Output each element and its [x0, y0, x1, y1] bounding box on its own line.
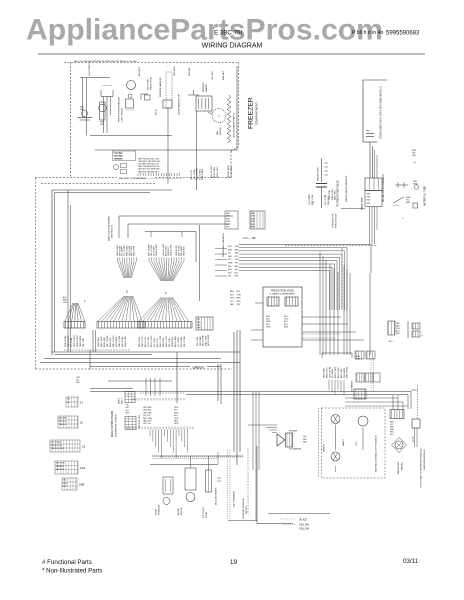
capacitor terminal ticks	[325, 162, 329, 164]
svg-text:GRN: GRN	[174, 418, 179, 420]
svg-text:YEL ORG: YEL ORG	[212, 71, 214, 80]
wire elbow long top	[239, 245, 371, 274]
lamp holder verticals	[103, 97, 105, 134]
freezer compartment dashed boundary	[64, 62, 239, 64]
wire horizontal into tank area	[341, 208, 365, 210]
valve coil block right	[285, 297, 298, 306]
dispenser compartment dashed boundary	[322, 408, 386, 478]
svg-text:THERMISTOR: THERMISTOR	[333, 213, 335, 228]
wire main bus 1b	[55, 354, 153, 356]
svg-text:WATER DISP: WATER DISP	[397, 461, 400, 474]
svg-text:4: 4	[422, 335, 424, 337]
svg-text:BRN: BRN	[367, 200, 371, 202]
svg-text:RED-8 BLU: RED-8 BLU	[163, 336, 165, 347]
svg-text:AUGER: AUGER	[177, 507, 180, 515]
svg-text:YEL: YEL	[228, 276, 232, 278]
machine compartment dashed line upper	[35, 177, 117, 179]
svg-text:ORG: ORG	[63, 302, 68, 304]
svg-text:RED: RED	[303, 442, 308, 444]
svg-text:J3: J3	[82, 444, 86, 448]
svg-text:LOCK: LOCK	[413, 436, 415, 442]
svg-text:GRY: GRY	[126, 407, 131, 409]
svg-text:VIO-4 BLU: VIO-4 BLU	[332, 368, 334, 378]
svg-text:PNK: PNK	[396, 333, 400, 335]
svg-text:J4 6 — J4B: J4 6 — J4B	[243, 237, 256, 240]
svg-text:BRN-5 ORG: BRN-5 ORG	[326, 367, 328, 378]
dispenser light lamp L1	[331, 415, 340, 424]
wire yellow feed	[268, 513, 330, 515]
svg-text:DISPENSER HARNESS: DISPENSER HARNESS	[222, 233, 225, 257]
auger motor housing	[185, 468, 196, 490]
dashed harness boundary horizontal	[285, 245, 377, 247]
svg-text:GRY: GRY	[251, 221, 256, 223]
svg-text:YEL-3 PNK: YEL-3 PNK	[194, 169, 196, 180]
ice chute door	[206, 470, 212, 492]
wire bottom link to yellow pair	[228, 520, 257, 522]
svg-text:DEFROST: DEFROST	[203, 82, 205, 92]
wire left drop to valve bundle	[217, 452, 219, 464]
wire freezer light feed horizontal	[80, 77, 110, 79]
svg-text:HEATER: HEATER	[205, 83, 208, 92]
svg-text:GRN: GRN	[100, 122, 105, 124]
defrost heater zigzag	[227, 95, 231, 143]
svg-text:DISPENSER MODULE: DISPENSER MODULE	[424, 449, 426, 470]
dispenser fan motor M4	[358, 416, 368, 426]
svg-text:YEL: YEL	[126, 405, 129, 407]
svg-text:TAN: TAN	[251, 212, 255, 215]
svg-text:BLU: BLU	[235, 256, 239, 258]
wire long bus upper	[108, 380, 172, 382]
svg-text:GRN-12 PNK: GRN-12 PNK	[65, 335, 67, 347]
cabinet dashed border left	[35, 178, 37, 369]
defrost thermostat bracket	[141, 94, 148, 100]
svg-text:VIO: VIO	[230, 301, 234, 303]
svg-text:PNK-13 ORG: PNK-13 ORG	[113, 335, 115, 347]
defrost heater DH1	[196, 96, 212, 111]
svg-text:ORG: ORG	[230, 298, 235, 300]
svg-text:4x: 4x	[414, 162, 417, 164]
svg-text:BLU-14 ORG: BLU-14 ORG	[211, 165, 213, 178]
svg-text:YEL-4 YEL: YEL-4 YEL	[197, 337, 199, 346]
pin function table A	[225, 211, 238, 229]
board edge connector strip upper	[125, 392, 135, 403]
svg-text:TAN-5 PNK: TAN-5 PNK	[328, 190, 331, 200]
wire trunk into dispenser area	[369, 273, 371, 355]
door switch diagonal	[393, 197, 404, 203]
svg-text:RED: RED	[197, 325, 201, 327]
svg-text:ORG BLU: ORG BLU	[114, 158, 123, 160]
dotted pair ice water	[370, 358, 372, 392]
wire freezer drop crossing legend	[167, 150, 169, 184]
svg-text:RED-5 TAN: RED-5 TAN	[213, 167, 216, 178]
dashed tie below connectors	[64, 349, 130, 351]
svg-text:PNK-16 GRY: PNK-16 GRY	[332, 188, 334, 200]
light switch ball S1	[82, 111, 88, 117]
svg-text:BLK-16 RED: BLK-16 RED	[197, 168, 199, 180]
svg-text:YEL VIO: YEL VIO	[143, 415, 151, 417]
svg-text:RED-6 PNK: RED-6 PNK	[133, 245, 135, 256]
svg-text:BLK-3 VIO: BLK-3 VIO	[157, 337, 159, 347]
svg-text:E 3BC 76I: E 3BC 76I	[214, 30, 242, 37]
lamp holder bracket	[101, 90, 113, 97]
svg-text:COMPARTMENT: COMPARTMENT	[255, 102, 259, 125]
svg-text:BLU: BLU	[230, 294, 234, 296]
svg-text:MULLION HEATER: MULLION HEATER	[215, 487, 218, 505]
connector table J4A	[55, 461, 78, 474]
svg-text:GRY YEL: GRY YEL	[143, 423, 151, 425]
wire freezer trunk down	[236, 66, 238, 150]
dispenser door solenoid	[163, 477, 173, 494]
bracket right tables	[407, 321, 409, 338]
defrost heater bracket	[188, 94, 199, 96]
svg-text:# Functional Parts: # Functional Parts	[42, 559, 92, 566]
svg-text:WATER TANK: WATER TANK	[361, 197, 364, 210]
svg-text:WATER FILL TUBE: WATER FILL TUBE	[424, 186, 427, 206]
svg-text:19: 19	[230, 559, 238, 566]
svg-text:WHT: WHT	[100, 124, 105, 126]
svg-text:DOOR: DOOR	[206, 511, 208, 518]
wire fan diverging B	[98, 296, 124, 321]
wire riser B	[176, 352, 178, 403]
svg-text:YEL: YEL	[226, 227, 229, 229]
svg-text:BLU: BLU	[228, 246, 232, 248]
capacitor plates freezer light	[78, 117, 93, 119]
wire stubs left of labels	[215, 248, 227, 250]
svg-text:BLU: BLU	[390, 434, 394, 436]
svg-text:BLU: BLU	[174, 415, 178, 417]
relay module below sub pcb	[354, 389, 366, 399]
wire bundle risers to sub pcb	[319, 252, 321, 355]
svg-text:PADDLE: PADDLE	[401, 461, 404, 470]
svg-text:C: C	[165, 291, 167, 295]
svg-text:T: T	[218, 115, 220, 119]
svg-text:YEL-3 YEL: YEL-3 YEL	[83, 338, 85, 347]
wire bundle into water valve	[263, 424, 277, 426]
svg-text:YEL: YEL	[235, 263, 239, 265]
wire riser A pair	[89, 350, 91, 370]
control enclosure inner line	[55, 192, 151, 194]
dashed box defrost	[166, 72, 172, 108]
svg-text:YELLOW: YELLOW	[299, 528, 310, 531]
svg-text:TAN-6 PNK: TAN-6 PNK	[323, 368, 326, 378]
wire drops into UI	[145, 378, 147, 396]
svg-text:PNK-1 TAN: PNK-1 TAN	[204, 336, 207, 346]
fresh food valve enclosure	[263, 287, 302, 347]
svg-text:+: +	[313, 200, 315, 204]
valve stub wires left	[255, 302, 263, 304]
svg-text:VIO-1 BLU: VIO-1 BLU	[154, 337, 156, 347]
svg-text:03/11: 03/11	[403, 558, 419, 565]
svg-text:BRN-11 GRY: BRN-11 GRY	[335, 366, 337, 378]
svg-text:ICE WATER: ICE WATER	[351, 380, 354, 392]
svg-text:GREEN: GREEN	[324, 444, 326, 452]
svg-text:VIO-12 PNK: VIO-12 PNK	[231, 166, 233, 178]
svg-text:MAIN CONTROL BOARD: MAIN CONTROL BOARD	[108, 216, 111, 241]
dispenser switch block	[390, 410, 404, 419]
svg-text:RED: RED	[237, 301, 242, 303]
wire freezer lower long bus	[95, 149, 237, 151]
dispenser UI wire drops	[149, 429, 151, 436]
svg-text:IC MAKER COMPARTMENT: IC MAKER COMPARTMENT	[270, 293, 296, 296]
svg-text:TAN ORG: TAN ORG	[143, 420, 152, 423]
svg-text:GRY-9 RED: GRY-9 RED	[116, 336, 118, 347]
svg-text:GRN: GRN	[174, 423, 179, 425]
wire bottom return elbow	[256, 446, 258, 524]
touch pad connector box	[412, 419, 420, 428]
svg-text:WHT FOOD: WHT FOOD	[148, 79, 150, 90]
svg-text:GRY RED: GRY RED	[143, 407, 152, 409]
svg-text:MOTOR: MOTOR	[220, 127, 222, 135]
svg-text:GRY: GRY	[76, 382, 81, 384]
svg-text:GRN: GRN	[80, 109, 85, 111]
auger motor M2	[186, 493, 195, 502]
svg-text:BLK: BLK	[237, 291, 241, 293]
svg-text:BLU: BLU	[235, 272, 239, 274]
door switch S2 contacts	[366, 133, 374, 135]
svg-text:GRN-12 GRY: GRN-12 GRY	[171, 244, 173, 256]
svg-text:TAN-16 TAN: TAN-16 TAN	[124, 336, 127, 347]
wire main bus 2	[44, 358, 221, 360]
svg-text:VIO: VIO	[197, 319, 201, 321]
svg-text:BLU: BLU	[389, 341, 393, 343]
grid block pair lower	[355, 351, 364, 359]
svg-text:GRN-8 YEL: GRN-8 YEL	[172, 337, 174, 347]
svg-text:BRN WHT: BRN WHT	[223, 70, 225, 80]
svg-text:WATER VALVE HARNESS: WATER VALVE HARNESS	[382, 174, 385, 202]
svg-text:FRESH FOOD: FRESH FOOD	[151, 76, 153, 90]
svg-text:GRY-12 GRY: GRY-12 GRY	[208, 334, 210, 346]
door switch enclosure	[363, 79, 387, 81]
wire riser pair mid	[92, 330, 94, 352]
wire fan small left	[65, 303, 73, 321]
svg-text:CRUSHER SOLENOID: CRUSHER SOLENOID	[243, 498, 245, 519]
svg-text:WHT-15 BLU: WHT-15 BLU	[347, 366, 349, 378]
svg-text:(P) ICE: (P) ICE	[299, 519, 307, 522]
wire fan diverging C	[139, 298, 161, 322]
svg-text:ORG RED: ORG RED	[174, 66, 176, 76]
svg-text:ORG: ORG	[266, 326, 271, 328]
svg-text:RED: RED	[230, 291, 235, 293]
svg-text:TAN PNK TAN RED BLK: TAN PNK TAN RED BLK	[138, 170, 160, 173]
connector J1 comb	[148, 258, 150, 261]
sub pcb wire drops	[328, 380, 330, 390]
svg-text:ICE CONTAINER: ICE CONTAINER	[233, 491, 236, 507]
svg-text:BLU-16 RED: BLU-16 RED	[175, 335, 177, 347]
svg-text:VIO: VIO	[174, 410, 178, 412]
wire trunk triple vertical	[233, 332, 235, 452]
svg-text:BLK-3 ORG: BLK-3 ORG	[139, 336, 141, 347]
wire freezer light vertical pair	[82, 78, 84, 118]
svg-text:GRY: GRY	[367, 194, 372, 196]
svg-text:BLK WHT: BLK WHT	[139, 66, 141, 76]
svg-text:WHT: WHT	[251, 227, 256, 229]
wire fan converging J2	[118, 261, 125, 278]
svg-text:BLU-2 YEL: BLU-2 YEL	[341, 369, 343, 378]
svg-text:RED-5 BLU: RED-5 BLU	[335, 189, 337, 200]
wire main bus 3	[40, 362, 240, 364]
svg-text:TAN ORG GRN: TAN ORG GRN	[51, 447, 64, 450]
wire freezer bottom bus short	[90, 135, 172, 137]
svg-text:GRN-13 WHT: GRN-13 WHT	[77, 334, 79, 347]
wire feed to touch pad dashed	[411, 389, 418, 391]
svg-text:YEL-9 BRN: YEL-9 BRN	[344, 368, 346, 378]
svg-text:P bli h d in 4o: P bli h d in 4o	[352, 30, 383, 36]
dashed stub left of UI	[140, 392, 185, 394]
legend connector icons	[114, 165, 119, 170]
svg-text:FREEZER: FREEZER	[248, 97, 255, 129]
svg-text:PNK: PNK	[367, 203, 371, 205]
svg-text:GRN: GRN	[226, 221, 231, 223]
svg-text:TOUCH PAD TO DISPENSER MODULE: TOUCH PAD TO DISPENSER MODULE	[420, 448, 423, 488]
svg-text:GRY-13 GRN: GRY-13 GRN	[74, 335, 76, 347]
svg-text:B: B	[126, 290, 128, 294]
machine compartment dashed line lower	[41, 183, 155, 185]
svg-text:TAN BLU: TAN BLU	[59, 423, 67, 426]
svg-text:BLU ORG: BLU ORG	[114, 153, 123, 155]
svg-text:BRN-4: BRN-4	[119, 398, 121, 404]
wire ui to motor	[150, 464, 218, 466]
harness connector P2	[97, 322, 145, 329]
svg-text:RED: RED	[197, 322, 201, 324]
svg-text:ORG: ORG	[251, 216, 256, 218]
svg-text:WHT GRN: WHT GRN	[143, 418, 153, 420]
bulb socket rect	[126, 99, 134, 108]
svg-text:SEE ICE MAKER PARTS: SEE ICE MAKER PARTS	[233, 113, 236, 138]
svg-text:SOLENOID: SOLENOID	[159, 504, 161, 515]
svg-text:BLK: BLK	[126, 410, 130, 412]
svg-text:WHT: WHT	[126, 413, 131, 415]
svg-text:FRESH FOOD: FRESH FOOD	[336, 213, 338, 228]
control enclosure outline	[52, 189, 172, 191]
svg-text:FRESH FOOD VALVE: FRESH FOOD VALVE	[271, 290, 294, 293]
wire bundle risers outer	[343, 265, 345, 355]
solenoid plunger	[163, 498, 170, 505]
wire return bundle verticals	[252, 392, 254, 470]
svg-text:WHT: WHT	[228, 256, 233, 258]
svg-text:MAIN CONTROL BOARD: MAIN CONTROL BOARD	[111, 410, 114, 437]
svg-text:VIO: VIO	[228, 253, 232, 255]
svg-text:TAN-13 BRN: TAN-13 BRN	[79, 335, 82, 347]
freezer lamp circle	[100, 102, 106, 120]
svg-text:WIRING DIAGRAM: WIRING DIAGRAM	[202, 43, 263, 50]
svg-text:+: +	[402, 216, 404, 220]
wire inner vertical pair	[67, 190, 69, 352]
wire bus right drops	[410, 392, 412, 410]
svg-text:WHT: WHT	[197, 328, 202, 330]
water tank heater block lower	[365, 191, 382, 207]
svg-text:BRN: BRN	[228, 249, 233, 251]
svg-text:BLU-12 ORG: BLU-12 ORG	[151, 335, 153, 347]
wire elbows from sub pcb to dispenser	[345, 397, 398, 399]
svg-text:4: 4	[84, 300, 86, 303]
svg-text:BRN-5 BLU: BRN-5 BLU	[104, 336, 106, 347]
svg-text:MOTOR: MOTOR	[181, 507, 183, 515]
sub pcb connector bracket	[322, 352, 352, 354]
wire main bus 1	[52, 351, 240, 353]
svg-text:BLU-11 GRY: BLU-11 GRY	[166, 335, 168, 347]
svg-text:YELLOW: YELLOW	[299, 524, 310, 527]
wire drops into switch block	[392, 395, 394, 410]
svg-text:ICE CHUTE: ICE CHUTE	[203, 507, 205, 518]
svg-text:WHT BLK: WHT BLK	[189, 66, 191, 76]
dotted pair ice container	[227, 450, 229, 519]
svg-text:BLK: BLK	[228, 269, 232, 271]
svg-text:PNK-12 TAN: PNK-12 TAN	[118, 336, 121, 347]
svg-text:GRN-16 WHT: GRN-16 WHT	[156, 243, 158, 256]
svg-text:BLU BLU: BLU BLU	[59, 421, 67, 423]
svg-text:WHT-12 PNK: WHT-12 PNK	[107, 335, 109, 347]
connector table J3	[50, 440, 80, 452]
svg-text:DOOR: DOOR	[156, 508, 158, 515]
svg-text:BLK: BLK	[228, 272, 232, 274]
svg-text:YEL-7 YEL: YEL-7 YEL	[169, 338, 171, 347]
svg-text:POWER: POWER	[289, 431, 298, 433]
svg-text:TAN-6 BLK: TAN-6 BLK	[183, 246, 186, 256]
dashed leader rows from valve box	[303, 333, 340, 335]
wire riser C pair	[217, 364, 219, 401]
water inlet symbol	[395, 184, 408, 186]
svg-text:GRY: GRY	[237, 304, 242, 306]
legend dotted row	[138, 178, 182, 180]
grid block trio lower	[356, 373, 364, 382]
svg-text:TO FRESH FOOD VALVE: TO FRESH FOOD VALVE	[337, 180, 340, 207]
run capacitor C1	[316, 183, 327, 185]
svg-text:WHT: WHT	[226, 213, 231, 215]
svg-text:WHT-4 TAN: WHT-4 TAN	[121, 336, 124, 347]
wire heater drop crossing legend	[196, 150, 198, 190]
wire main bus 4 with GREEN label	[90, 366, 190, 368]
legend comb ticks	[137, 173, 139, 176]
svg-text:GRN: GRN	[237, 294, 242, 296]
dispenser light lamp L2	[331, 452, 340, 461]
wire long bus lower	[186, 394, 408, 396]
svg-text:J4A: J4A	[80, 466, 86, 470]
svg-text:ORG: ORG	[235, 259, 240, 261]
svg-text:RED: RED	[174, 421, 179, 423]
svg-text:GRY: GRY	[235, 253, 240, 255]
svg-text:BLK 4x: BLK 4x	[156, 109, 158, 115]
svg-text:GRN: GRN	[251, 218, 256, 220]
fill tube mark	[413, 203, 418, 208]
svg-text:5995590683: 5995590683	[386, 31, 420, 37]
svg-text:LIGHT BULBS: LIGHT BULBS	[122, 107, 124, 122]
svg-text:BRN: BRN	[235, 266, 240, 268]
svg-text:GREEN: GREEN	[193, 365, 205, 369]
harness connector P1	[64, 322, 85, 329]
valve terminal block	[286, 433, 293, 447]
svg-text:VIO-13 TAN: VIO-13 TAN	[324, 194, 327, 205]
svg-text:BLK WHT ORG: BLK WHT ORG	[139, 414, 141, 428]
svg-text:YEL: YEL	[235, 269, 239, 271]
svg-text:GRN: GRN	[63, 483, 68, 485]
cabinet dashed border bottom	[36, 368, 233, 370]
dashed harness boundary vertical	[341, 248, 343, 308]
svg-text:MOUNTED AT CENTER: MOUNTED AT CENTER	[115, 414, 118, 437]
svg-text:RED: RED	[251, 224, 255, 226]
svg-text:LIGHT SWITCH: LIGHT SWITCH	[89, 61, 91, 76]
svg-text:J4B: J4B	[79, 482, 84, 486]
svg-text:MACHINE COMPARTMENT: MACHINE COMPARTMENT	[119, 177, 147, 180]
svg-text:BRN: BRN	[406, 202, 411, 204]
svg-text:BLK TAN: BLK TAN	[59, 417, 67, 420]
svg-text:YEL-6 VIO: YEL-6 VIO	[191, 170, 193, 180]
connector J1 bracket	[145, 231, 196, 233]
wire valve to bundle right	[302, 316, 341, 318]
wire nested elbows to right trunk	[239, 248, 347, 311]
dispenser paddle diamond	[392, 438, 407, 453]
svg-text:SEE PAGE 20: SEE PAGE 20	[111, 224, 114, 238]
wire elbow to connector J2	[119, 215, 233, 217]
